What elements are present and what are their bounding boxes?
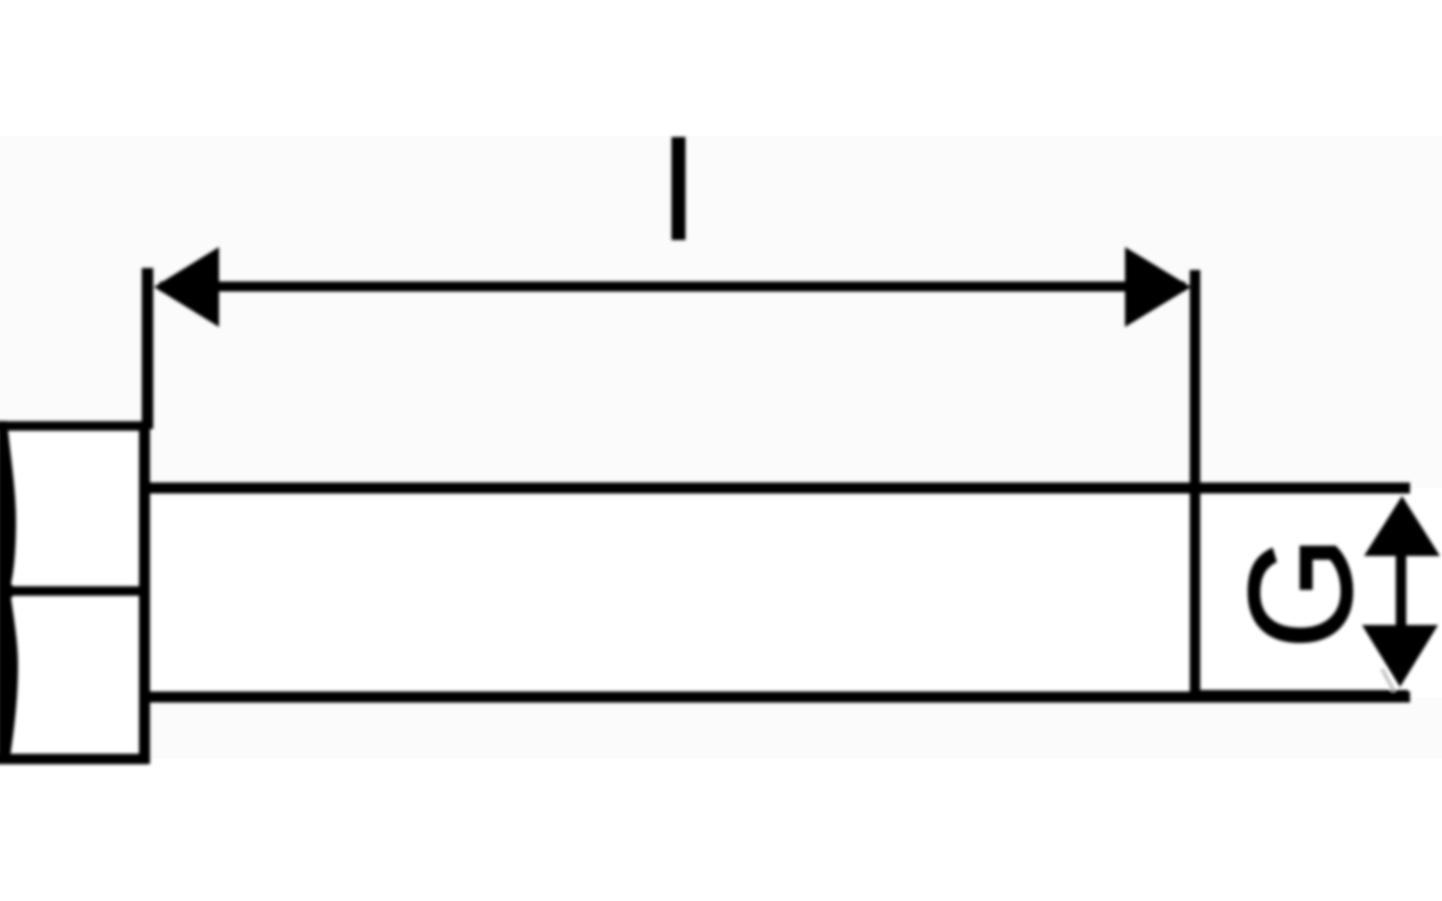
extension line left (head right face) — [142, 268, 154, 429]
arrowhead right of dimension I — [1125, 247, 1191, 327]
bolt head top line — [0, 421, 150, 431]
shaft bottom line — [150, 692, 1410, 703]
label I — [672, 137, 686, 240]
extension line right (shaft end face) — [1190, 270, 1201, 700]
shaft top line — [150, 483, 1410, 494]
bolt head bottom line — [0, 754, 148, 765]
scan artifact near down arrow tip — [1382, 669, 1394, 691]
bolt head middle facet line — [0, 586, 146, 596]
background light band — [0, 136, 1442, 759]
arrowhead down of dimension G — [1362, 625, 1438, 687]
bolt head left silhouette band with chamfer arcs — [0, 421, 18, 758]
arrowhead left of dimension I — [154, 247, 219, 327]
bolt head white fill — [0, 426, 146, 759]
dimension line I — [160, 282, 1185, 292]
dimension line G — [1396, 556, 1407, 625]
extension line bottom of dimension G — [1197, 690, 1408, 695]
shaft white fill — [146, 488, 1442, 697]
svg-text:G: G — [1219, 535, 1383, 649]
arrowhead up of dimension G — [1364, 496, 1440, 556]
bolt head right face — [139, 423, 150, 764]
